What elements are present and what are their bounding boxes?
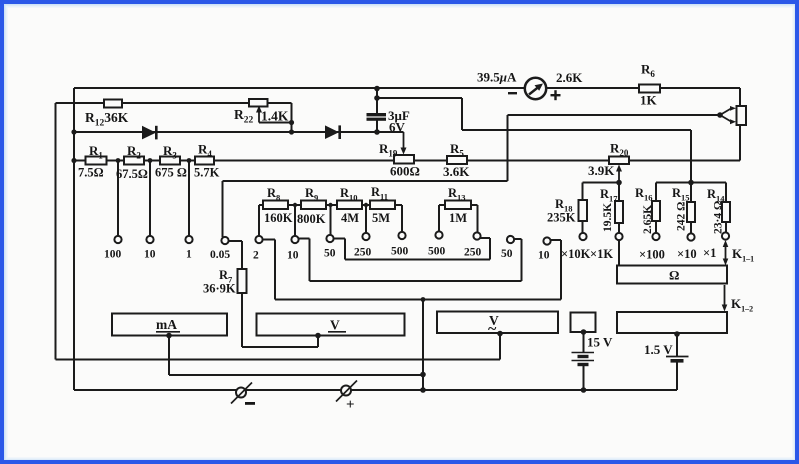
svg-text:7.5Ω: 7.5Ω [78,166,104,180]
svg-text:1K: 1K [640,93,658,108]
wire tap 250c [477,205,479,233]
svg-text:100: 100 [104,249,122,261]
wire Vac box to left rail [56,359,501,361]
resistor R1 [86,157,107,165]
wiper arrow of R20 [616,165,622,183]
resistor R18 [579,200,588,221]
wire diode row [74,131,404,133]
wire drop at 462 [461,98,463,130]
wire link to ohm-section top [462,129,691,131]
wire R17 leads [618,183,620,234]
svg-text:2.65K: 2.65K [642,205,654,234]
svg-text:~: ~ [488,321,497,338]
wiper fork of right potentiometer [720,106,736,124]
svg-text:675 Ω: 675 Ω [155,166,187,180]
wiper arrow of R19 [401,132,407,155]
switch box K1-2 [617,312,727,333]
resistor R6 [639,85,660,93]
resistor R20 [609,157,629,165]
terminals ohm section x10K x1K x100 x10 x1 [579,233,586,240]
resistor R7 [238,269,247,293]
svg-text:3.6K: 3.6K [443,164,470,179]
wire hook 0.05 to R7 [225,240,242,242]
wire top bus from left rail to right rail [74,87,740,89]
wire tap 250b [365,205,367,233]
wire R14 leads [725,183,727,233]
wire bracket drop at 490 [489,238,491,260]
wire tap 500b [401,205,403,232]
wire node column 423 [422,300,424,391]
wire tap 50b [330,205,332,235]
svg-text:mA: mA [156,317,177,332]
wire long bus 2-10 [275,299,561,301]
wire R22 right lead [291,103,293,132]
wire main resistor row R1..R20 [74,160,740,162]
wire bracket drop at 345 [344,239,346,260]
resistor R22 [249,99,268,107]
svg-text:10: 10 [538,250,550,262]
svg-text:1M: 1M [449,211,467,225]
switch box V [257,314,405,336]
wire hook at terminal 250 right [476,237,490,239]
resistor R3 [160,157,180,165]
wire mid link to potentiometer wiper [508,114,721,116]
svg-text:×10K: ×10K [561,247,591,261]
wire tap 500c [438,205,440,232]
svg-text:10: 10 [144,249,156,261]
wire 0.05 tap bus [223,180,508,182]
wire lower bracket 10-50 [310,280,522,282]
wire R16 leads [655,183,657,234]
wire tap 10 [149,161,151,237]
svg-text:×1K: ×1K [590,247,613,261]
battery 1.5V cell [666,357,689,361]
battery 15V cells [572,353,595,365]
svg-text:10: 10 [287,250,299,262]
diode D1 [142,126,158,140]
svg-text:19.5K: 19.5K [602,203,614,232]
wire hook at terminal 50 right [513,238,522,240]
wire Vac box drop [499,334,501,360]
resistor R12 [104,100,122,108]
wire bracket drop at 521.5 [521,239,523,281]
wire tap 0.05 [222,181,224,237]
meter M 39.5uA [508,78,561,100]
wire left rail outer [55,103,57,360]
svg-text:50: 50 [501,248,513,260]
svg-text:23·4 Ω: 23·4 Ω [713,201,725,234]
svg-text:×10: ×10 [677,247,697,261]
svg-text:+: + [346,397,355,413]
resistor R9 [301,201,326,210]
wire R22 wiper link [259,122,292,124]
wire multiplier chain R8-R11 [259,204,402,206]
svg-text:50: 50 [324,248,336,260]
jack minus [231,383,252,404]
capacitor C 3uF [367,113,387,121]
svg-text:×100: ×100 [639,248,665,262]
svg-text:800K: 800K [297,212,326,226]
resistor R13 [445,201,471,210]
resistor R10 [337,201,362,210]
wire right rail with potentiometer [739,88,741,161]
wire R12/R22 branch row [56,102,292,104]
resistor R19 [394,155,414,164]
wire V box drop [317,336,319,347]
svg-text:2.6K: 2.6K [556,70,583,85]
svg-text:4M: 4M [341,211,359,225]
svg-text:1.4K: 1.4K [261,109,289,124]
switch box ohm [617,266,727,284]
svg-text:250: 250 [464,247,482,259]
wire upper bracket 50-250 [345,259,490,261]
wire tap 100 [117,161,119,237]
label minus under jack [245,402,255,405]
wire tap 2 [258,205,260,236]
svg-text:1: 1 [186,249,192,261]
wire tap 10b [294,205,296,236]
wire x1K terminal to ohm box [618,240,620,266]
svg-text:160K: 160K [264,211,293,225]
svg-text:242 Ω: 242 Ω [676,202,688,231]
wire hook at terminal 2 [259,239,275,241]
wire R18-R17 top bus [583,182,620,184]
svg-text:39.5μA: 39.5μA [477,70,517,85]
resistor R14 [722,202,730,222]
svg-text:2: 2 [253,250,259,262]
wire R18 leads [582,183,584,234]
switch box 15V [571,313,596,333]
wire drop at 691 to ohm bus [690,130,692,183]
wire hook at terminal 10 right [547,239,561,241]
svg-text:V: V [330,318,340,333]
svg-text:1.5 V: 1.5 V [644,342,673,357]
switch arrow K1-2 [722,285,728,312]
svg-text:250: 250 [354,247,372,259]
wire hook at terminal 50 [330,238,345,240]
svg-text:×1: ×1 [703,246,716,260]
wire capacitor top lead [376,88,378,114]
wire tap 1 [188,161,190,237]
switch arrow K1-1 [723,240,729,266]
resistor R5 [447,156,467,164]
wire mA box to bottom node [169,374,423,376]
wire bracket drop at 309.5 [309,239,311,282]
resistor R15 [687,202,695,222]
svg-text:500: 500 [428,246,446,258]
resistor R4 [195,157,214,165]
switch box mA [112,314,227,336]
svg-text:Ω: Ω [669,268,679,283]
jack plus [336,381,357,402]
wire mA box drop [168,336,170,375]
diode D2 [325,125,341,139]
resistor R2 [124,157,144,165]
wire R15 leads [690,183,692,234]
wiper arrow of R22 [256,106,262,123]
svg-text:15 V: 15 V [587,335,613,350]
wire capacitor node to right drop [377,97,462,99]
wire R13 row [439,204,478,206]
potentiometer on right rail [737,106,747,125]
switch box Vac [437,312,558,334]
wire 15V battery to bottom bus [583,366,585,390]
svg-text:5.7K: 5.7K [194,166,220,180]
svg-text:36·9K: 36·9K [203,282,236,296]
svg-text:0.05: 0.05 [210,249,230,261]
wire bracket drop at 275 [274,240,276,300]
wire drop at 561 from 10 [560,240,562,300]
svg-text:235K: 235K [547,211,576,225]
wire left rail inner [73,88,75,390]
terminals row: 100 10 1 0.05 2 10 50 250 500 / 500 250 50 10 [114,231,729,244]
wire hook at terminal 10 [295,238,310,240]
svg-text:5M: 5M [372,211,390,225]
svg-text:600Ω: 600Ω [390,164,420,179]
wire 1.5V battery column [676,334,678,357]
svg-text:3.9K: 3.9K [588,163,615,178]
wire 1.5V battery to bottom bus [676,362,678,390]
wire capacitor bottom lead [376,120,378,132]
resistor R11 [370,201,395,210]
wire riser at 507.5 [507,115,509,181]
svg-text:500: 500 [391,246,409,258]
wire R7 to V box [242,346,318,348]
wire R16-R14 top bus [656,182,726,184]
svg-text:67.5Ω: 67.5Ω [116,167,148,181]
svg-text:6V: 6V [389,120,406,135]
resistor R16 [652,201,660,221]
wire bottom bus [74,389,677,391]
wire R7 branch vertical [241,241,243,347]
resistor R17 [615,201,623,223]
resistor R8 [263,201,288,210]
wire 15V battery column [583,332,585,353]
